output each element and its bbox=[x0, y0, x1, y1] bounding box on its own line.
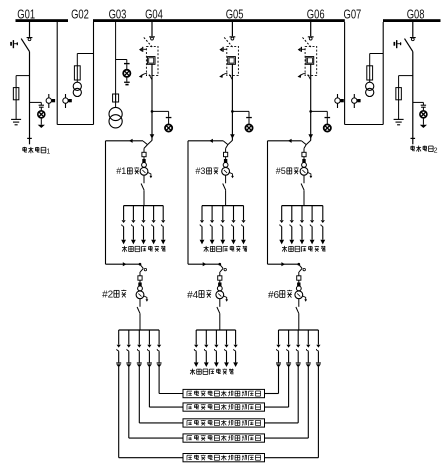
svg-text:#4: #4 bbox=[187, 290, 199, 301]
svg-text:G02: G02 bbox=[71, 6, 89, 21]
svg-text:#6: #6 bbox=[268, 290, 280, 301]
svg-text:G06: G06 bbox=[307, 6, 325, 21]
svg-text:G03: G03 bbox=[109, 6, 127, 21]
svg-text:#2: #2 bbox=[102, 290, 114, 301]
svg-text:1: 1 bbox=[46, 149, 50, 156]
svg-text:G08: G08 bbox=[407, 6, 425, 21]
svg-text:2: 2 bbox=[434, 147, 438, 154]
svg-text:G01: G01 bbox=[17, 6, 35, 21]
svg-text:#1: #1 bbox=[116, 166, 126, 176]
svg-text:#5: #5 bbox=[276, 166, 286, 176]
svg-text:G07: G07 bbox=[344, 6, 362, 21]
svg-text:#3: #3 bbox=[195, 166, 205, 176]
svg-text:G04: G04 bbox=[145, 6, 163, 21]
svg-text:G05: G05 bbox=[226, 6, 244, 21]
